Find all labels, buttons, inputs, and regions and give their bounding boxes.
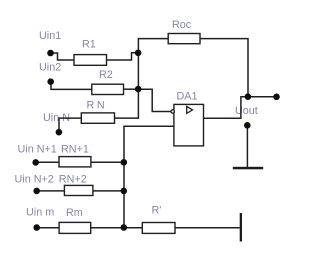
- svg-text:RN+1: RN+1: [61, 144, 89, 156]
- svg-text:RN+2: RN+2: [59, 173, 87, 185]
- svg-text:Uout: Uout: [235, 105, 258, 117]
- svg-text:Uin N+2: Uin N+2: [15, 173, 54, 185]
- svg-text:DA1: DA1: [177, 90, 198, 102]
- svg-text:Uin1: Uin1: [39, 30, 61, 42]
- svg-text:Uin m: Uin m: [26, 207, 54, 219]
- svg-text:R1: R1: [82, 39, 96, 51]
- svg-text:Uin2: Uin2: [39, 62, 61, 74]
- svg-text:RN: RN: [87, 99, 108, 111]
- svg-text:Uin N+1: Uin N+1: [18, 143, 57, 155]
- svg-text:Rm: Rm: [66, 207, 83, 219]
- svg-text:R2: R2: [99, 69, 113, 81]
- svg-text:R': R': [152, 204, 162, 216]
- svg-text:Roc: Roc: [172, 19, 192, 31]
